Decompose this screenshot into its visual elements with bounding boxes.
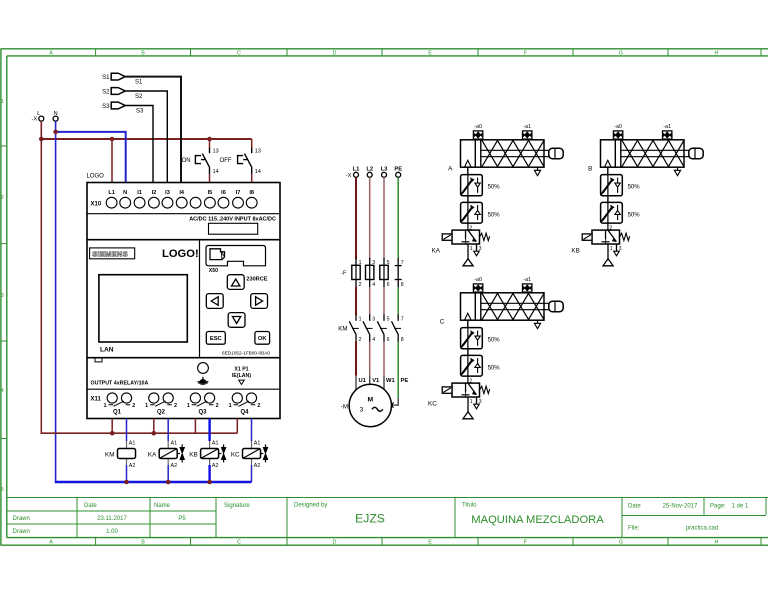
wire L3 fuse to KM [383, 287, 385, 315]
svg-text:OUTPUT 4xRELAY/10A: OUTPUT 4xRELAY/10A [91, 380, 149, 386]
svg-text:C: C [237, 540, 241, 546]
svg-text:1: 1 [229, 403, 232, 409]
svg-text:230RCE: 230RCE [246, 276, 267, 282]
terminal -X L [32, 111, 44, 123]
svg-text:AC/DC 115..240V INPUT 8xAC/DC: AC/DC 115..240V INPUT 8xAC/DC [189, 217, 276, 223]
svg-text:EJZS: EJZS [355, 511, 385, 525]
svg-text:SIEMENS: SIEMENS [92, 250, 128, 259]
wire L down to bus [40, 121, 42, 139]
contactor KM pole 5-6 [377, 315, 389, 343]
svg-text:KA: KA [432, 247, 441, 254]
wire V1 [369, 342, 371, 385]
svg-text:A1: A1 [171, 441, 178, 447]
svg-text:I1: I1 [137, 190, 142, 196]
svg-text:1 de 1: 1 de 1 [732, 504, 749, 510]
svg-text:2: 2 [174, 403, 177, 409]
svg-text:C: C [440, 318, 445, 325]
svg-text:Designed by: Designed by [294, 503, 327, 509]
sensor -a1 (A) [523, 124, 532, 139]
junction KA A2 [166, 480, 171, 485]
wire Q1-2 to KM [126, 419, 128, 442]
svg-text:-F: -F [341, 271, 347, 277]
svg-text:A: A [49, 50, 53, 56]
solenoid valve coil KA [148, 441, 185, 469]
valve KB 3/2 solenoid [582, 223, 630, 266]
wire S2 to I3 [125, 91, 167, 183]
svg-text:I8: I8 [249, 190, 254, 196]
wire L left drop [40, 139, 42, 433]
contactor KM pole 1-2 [338, 315, 361, 343]
pushbutton ON 13-14 [182, 139, 219, 183]
svg-text:1.00: 1.00 [106, 529, 118, 535]
svg-text:4: 4 [372, 337, 375, 343]
cylinder C [461, 293, 564, 329]
plug S3 [102, 102, 125, 110]
svg-text:practica.cad: practica.cad [686, 526, 718, 532]
svg-text:IE(LAN): IE(LAN) [232, 373, 251, 379]
motor -M 3~ [341, 378, 409, 427]
wire S1 to I4 [125, 77, 181, 183]
pipe cylinder A to flow valve [467, 167, 469, 174]
wire L2 to fuse [369, 177, 371, 259]
pipe between flow valves B [607, 196, 609, 203]
svg-text:A1: A1 [212, 441, 219, 447]
sensor -a0 (B) [613, 124, 622, 139]
svg-text:X1 P1: X1 P1 [234, 366, 248, 372]
wire PE to motor [390, 342, 398, 408]
terminal -X L1 L2 L3 PE [346, 167, 402, 179]
svg-text:OK: OK [258, 336, 268, 342]
svg-text:6: 6 [387, 337, 390, 343]
svg-text:S2: S2 [135, 94, 143, 100]
svg-text:LOGO!: LOGO! [162, 248, 199, 260]
svg-text:G: G [619, 540, 623, 546]
valve KA 3/2 solenoid [442, 223, 490, 266]
wire U1 [355, 342, 357, 391]
svg-text:X10: X10 [91, 202, 102, 208]
solenoid valve coil KC [231, 441, 268, 469]
contactor KM pole 3-4 [363, 315, 375, 343]
svg-text:X11: X11 [91, 397, 102, 403]
svg-text:1: 1 [359, 316, 362, 322]
junction L [39, 137, 44, 142]
valve KC 3/2 solenoid [442, 376, 490, 419]
sensor -a0 (A) [473, 124, 482, 139]
wire Q2-1 down [153, 419, 155, 434]
svg-text:V1: V1 [372, 378, 380, 384]
wire S3 to I2 [125, 106, 153, 183]
wire N down [55, 121, 57, 132]
svg-text:Q1: Q1 [113, 410, 122, 416]
svg-text:KM: KM [338, 326, 347, 333]
svg-text:2: 2 [216, 403, 219, 409]
svg-text:8: 8 [401, 282, 404, 288]
svg-text:Signature: Signature [224, 503, 250, 509]
flow control valve B upper 50% [601, 175, 641, 196]
wire Q2-2 to KA [167, 419, 169, 442]
cylinder A [461, 140, 564, 176]
svg-text:L1: L1 [108, 190, 115, 196]
junction KM A2 [124, 480, 129, 485]
solenoid valve coil KB [189, 441, 226, 469]
flow control valve A lower 50% [461, 202, 501, 223]
pipe between flow valves C [467, 349, 469, 356]
wire Q1-1 down [111, 419, 113, 434]
pipe cylinder B to flow valve [607, 167, 609, 174]
svg-text:A2: A2 [171, 463, 178, 469]
fuse -F pole 5-6 [380, 258, 390, 288]
wire PE isolator to link [397, 287, 399, 315]
svg-text:Drawn: Drawn [13, 516, 30, 522]
flow control valve C upper 50% [461, 328, 501, 349]
svg-text:1: 1 [187, 403, 190, 409]
svg-text:C: C [237, 50, 241, 56]
svg-text:3: 3 [1, 293, 4, 299]
svg-text:MAQUINA MEZCLADORA: MAQUINA MEZCLADORA [471, 514, 604, 526]
svg-text:3: 3 [360, 407, 364, 414]
svg-text:14: 14 [255, 169, 261, 175]
svg-text:KM: KM [105, 451, 114, 458]
junction N [53, 130, 58, 135]
svg-text:S3: S3 [102, 104, 110, 110]
svg-text:LAN: LAN [100, 347, 114, 354]
wire N bus to PLC N input [56, 132, 126, 183]
svg-text:A1: A1 [254, 441, 261, 447]
svg-text:H: H [715, 50, 719, 56]
svg-text:W1: W1 [386, 378, 395, 384]
wire N left drop [55, 132, 57, 482]
svg-text:KC: KC [231, 451, 240, 458]
flow control valve A upper 50% [461, 175, 501, 196]
svg-text:B: B [588, 165, 592, 172]
svg-text:S3: S3 [136, 109, 144, 115]
svg-text:13: 13 [255, 149, 261, 155]
svg-text:A2: A2 [212, 463, 219, 469]
wire PE to isolator [397, 177, 399, 259]
svg-text:G: G [619, 50, 623, 56]
svg-text:23.11.2017: 23.11.2017 [97, 516, 127, 522]
flow control valve C lower 50% [461, 355, 501, 376]
pipe between flow valves A [467, 196, 469, 203]
svg-text:7: 7 [401, 260, 404, 266]
svg-text:M: M [367, 397, 373, 404]
svg-text:Q3: Q3 [198, 410, 207, 416]
svg-text:6: 6 [387, 282, 390, 288]
svg-text:P5: P5 [178, 516, 186, 522]
junction ON branch [207, 137, 212, 142]
wire N return bus [55, 481, 252, 483]
sensor -a1 (C) [523, 277, 532, 292]
wire L bus lower [41, 432, 238, 434]
svg-text:A2: A2 [129, 463, 136, 469]
svg-text:S2: S2 [102, 89, 110, 95]
svg-text:3: 3 [372, 316, 375, 322]
wire Q3-1 down [194, 419, 196, 434]
sensor -a0 (C) [473, 277, 482, 292]
flow control valve B lower 50% [601, 202, 641, 223]
wire Q3-2 to KB [208, 419, 210, 442]
svg-text:Page:: Page: [710, 504, 726, 510]
svg-text:2: 2 [1, 195, 4, 201]
svg-text:X50: X50 [209, 268, 218, 274]
junction KB A2 [207, 480, 212, 485]
svg-text:ON: ON [182, 158, 191, 164]
svg-text:OFF: OFF [220, 158, 232, 164]
svg-text:-X: -X [346, 173, 352, 179]
svg-text:I3: I3 [165, 190, 170, 196]
pipe cylinder C to flow valve [467, 320, 469, 327]
junction Q2-1 [152, 431, 157, 436]
fuse -F pole 1-2 [341, 258, 362, 288]
svg-text:A2: A2 [254, 463, 261, 469]
plug S2 [102, 88, 125, 96]
svg-text:E: E [428, 50, 432, 56]
svg-text:1: 1 [145, 403, 148, 409]
wire L2 fuse to KM [369, 287, 371, 315]
wire Q4-2 to KC [251, 419, 253, 442]
svg-text:7: 7 [401, 316, 404, 322]
svg-text:I7: I7 [236, 190, 241, 196]
cylinder B [601, 140, 704, 176]
svg-text:8: 8 [401, 337, 404, 343]
isolator link 7-8 (PE) [395, 258, 404, 288]
wire L1 phase bus [41, 138, 252, 140]
svg-text:D: D [333, 540, 337, 546]
svg-text:Q4: Q4 [240, 410, 249, 416]
svg-text:Drawn: Drawn [13, 529, 30, 535]
wire L3 to fuse [383, 177, 385, 259]
svg-text:LOGO: LOGO [87, 174, 105, 180]
svg-text:14: 14 [213, 169, 219, 175]
svg-text:B: B [141, 540, 145, 546]
svg-text:H: H [715, 540, 719, 546]
plug S1 [102, 73, 125, 81]
svg-text:4: 4 [372, 282, 375, 288]
relay coil KM [105, 441, 135, 469]
svg-text:Date: Date [628, 504, 641, 510]
pushbutton OFF 13-14 [220, 139, 261, 183]
svg-text:2: 2 [257, 403, 260, 409]
svg-text:U1: U1 [359, 378, 367, 384]
svg-text:S1: S1 [102, 75, 110, 81]
svg-text:Name: Name [154, 503, 171, 509]
junction L1 branch [110, 137, 115, 142]
svg-text:A1: A1 [129, 441, 136, 447]
svg-text:Date: Date [84, 503, 97, 509]
svg-text:2: 2 [359, 282, 362, 288]
wire L1 fuse to KM [355, 287, 357, 315]
fuse -F pole 3-4 [366, 258, 376, 288]
svg-text:S1: S1 [135, 80, 143, 86]
svg-text:5: 5 [387, 316, 390, 322]
svg-text:I6: I6 [221, 190, 226, 196]
svg-text:2: 2 [132, 403, 135, 409]
svg-text:Q2: Q2 [157, 410, 166, 416]
svg-text:1: 1 [104, 403, 107, 409]
svg-text:25-Nov-2017: 25-Nov-2017 [663, 504, 698, 510]
contactor KM pole 7-8 [392, 315, 404, 343]
svg-text:KC: KC [428, 400, 437, 407]
terminal -X N [53, 111, 58, 121]
wire Q4-1 down [236, 419, 238, 434]
svg-text:I5: I5 [208, 190, 213, 196]
sensor -a1 (B) [663, 124, 672, 139]
svg-text:ESC: ESC [210, 336, 223, 342]
svg-text:6ED1052-1FB00-0BA0: 6ED1052-1FB00-0BA0 [222, 350, 270, 355]
svg-text:B: B [141, 50, 145, 56]
svg-text:5: 5 [1, 487, 4, 493]
svg-text:I2: I2 [152, 190, 157, 196]
svg-text:Titulo: Titulo [462, 503, 477, 509]
svg-text:-X: -X [32, 116, 38, 122]
junction Q1-1 [110, 431, 115, 436]
svg-text:KB: KB [571, 247, 579, 254]
svg-text:PE: PE [401, 378, 409, 384]
svg-text:File:: File: [628, 526, 640, 532]
svg-text:2: 2 [359, 337, 362, 343]
PLC LOGO! 230RCE [87, 174, 281, 419]
wire L1 to fuse [355, 177, 357, 259]
svg-text:KB: KB [189, 451, 197, 458]
svg-text:-M: -M [341, 404, 348, 411]
svg-text:N: N [123, 190, 127, 196]
svg-text:13: 13 [213, 149, 219, 155]
svg-text:A: A [49, 540, 53, 546]
svg-text:1: 1 [1, 99, 4, 105]
wire W1 [383, 342, 385, 390]
svg-text:KA: KA [148, 451, 157, 458]
wire bus to PLC L1 input [111, 139, 113, 183]
svg-text:D: D [333, 50, 337, 56]
svg-text:4: 4 [1, 388, 4, 394]
svg-text:E: E [428, 540, 432, 546]
